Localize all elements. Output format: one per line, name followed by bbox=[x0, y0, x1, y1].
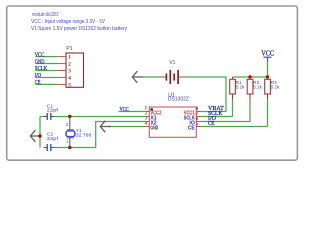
resistor R2 bbox=[247, 77, 262, 100]
wire X2 to crystal bottom bbox=[54, 122, 145, 148]
junction at left ground bbox=[38, 134, 41, 137]
U1 left pin numbers bbox=[145, 106, 148, 126]
svg-text:GND: GND bbox=[150, 125, 158, 131]
svg-text:5.1k: 5.1k bbox=[271, 84, 280, 89]
wire X1 row bbox=[40, 116, 145, 118]
text note bbox=[31, 12, 127, 32]
wire U1 GND pin bbox=[107, 126, 145, 128]
wire R3 to CE bbox=[267, 100, 269, 127]
junction at crystal bottom bbox=[68, 146, 71, 149]
power port VCC bbox=[261, 50, 274, 61]
svg-text:2: 2 bbox=[68, 62, 71, 68]
wire GND to P1 bbox=[36, 63, 58, 65]
U1 pin 8 lead bbox=[196, 111, 200, 113]
svg-text:DS1302Z: DS1302Z bbox=[168, 96, 189, 102]
svg-text:P1: P1 bbox=[66, 46, 72, 52]
crystal Y1 bbox=[66, 117, 92, 148]
svg-text:CE: CE bbox=[208, 121, 215, 127]
U1 pin 1 lead bbox=[145, 111, 149, 113]
IC U1 DS1302Z bbox=[149, 92, 196, 137]
wire VCC to U1 pin 1 bbox=[119, 111, 146, 113]
wire ground to battery bbox=[144, 76, 160, 78]
wire SCLK to P1 bbox=[36, 70, 58, 72]
P1 pin 2 lead bbox=[57, 63, 66, 65]
svg-text:4: 4 bbox=[68, 75, 71, 81]
U1 pin 5 lead bbox=[196, 126, 200, 128]
svg-text:5.1k: 5.1k bbox=[253, 84, 262, 89]
svg-text:SCLK: SCLK bbox=[35, 66, 48, 72]
wire CE to P1 bbox=[36, 83, 58, 85]
ground arrow at battery left bbox=[132, 71, 143, 83]
svg-text:5.1k: 5.1k bbox=[236, 84, 245, 89]
svg-text:CE: CE bbox=[35, 80, 41, 86]
wire I/O to P1 bbox=[36, 76, 58, 78]
svg-text:I/O: I/O bbox=[35, 73, 42, 79]
U1 right pin numbers bbox=[196, 107, 199, 127]
U1 pin names bbox=[150, 110, 195, 131]
ground arrow at U1 GND bbox=[100, 121, 111, 133]
battery V1 bbox=[160, 60, 185, 84]
resistor R1 bbox=[230, 77, 245, 100]
svg-text:VCC: VCC bbox=[35, 52, 45, 58]
svg-text:32.768: 32.768 bbox=[76, 133, 92, 139]
P1 pin 5 lead bbox=[57, 83, 66, 85]
P1 pin 3 lead bbox=[57, 70, 66, 72]
svg-text:CE: CE bbox=[188, 125, 196, 131]
svg-text:VCC: VCC bbox=[120, 107, 129, 113]
svg-text:V1: V1 bbox=[169, 60, 175, 66]
junction at R2 top bbox=[248, 75, 251, 78]
wire VCC rail bbox=[233, 76, 268, 78]
svg-text:3: 3 bbox=[68, 69, 71, 75]
svg-text:1: 1 bbox=[68, 55, 71, 61]
svg-text:V1:Spare 1.5V power DS1302 but: V1:Spare 1.5V power DS1302 button batter… bbox=[31, 26, 127, 32]
U1 pin 2 lead bbox=[145, 116, 149, 118]
U1 pin 7 lead bbox=[196, 116, 200, 118]
svg-text:VCC: VCC bbox=[261, 50, 274, 57]
junction at R3 top bbox=[266, 75, 269, 78]
wire VCC to P1 bbox=[36, 56, 58, 58]
connector P1 bbox=[66, 46, 84, 88]
wire CE row bbox=[201, 126, 268, 128]
svg-text:22pf: 22pf bbox=[47, 136, 59, 142]
ground arrow at left bbox=[30, 130, 40, 142]
wire VCC to rail bbox=[267, 62, 269, 78]
wire VBAT row bbox=[201, 111, 227, 113]
wire R1 to SCLK bbox=[232, 100, 234, 117]
U1 pin 6 lead bbox=[196, 121, 200, 123]
P1 pin numbers bbox=[68, 55, 71, 89]
resistor R3 bbox=[265, 77, 280, 100]
P1 pin 1 lead bbox=[57, 56, 66, 58]
svg-text:5: 5 bbox=[68, 82, 71, 88]
wire battery to VBAT bbox=[185, 77, 227, 112]
wire left vertical C1-C2 bbox=[39, 117, 41, 148]
svg-text:GND: GND bbox=[35, 59, 45, 65]
wire SCLK row bbox=[201, 116, 233, 118]
U1 pin 4 lead bbox=[145, 126, 149, 128]
junction at crystal top bbox=[68, 115, 71, 118]
capacitor C2 bbox=[44, 132, 59, 152]
svg-text:module:ds1302: module:ds1302 bbox=[32, 12, 59, 18]
wire R2 to I/O bbox=[249, 100, 251, 122]
U1 pin 3 lead bbox=[145, 121, 149, 123]
svg-text:VCC : Input voltage range 3.3V: VCC : Input voltage range 3.3V - 5V bbox=[31, 19, 106, 25]
capacitor C1 bbox=[44, 104, 59, 121]
wire I/O row bbox=[201, 121, 251, 123]
P1 pin 4 lead bbox=[57, 76, 66, 78]
